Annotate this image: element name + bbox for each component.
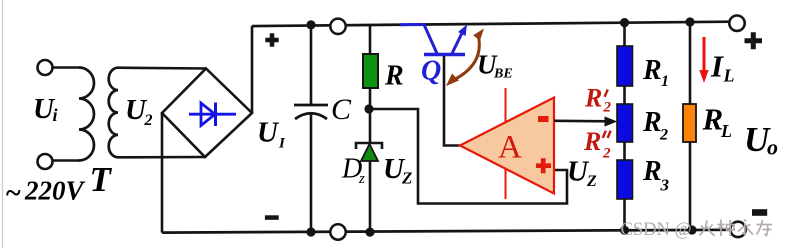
bridge rectifier diamond bbox=[162, 69, 252, 158]
node load top junction bbox=[685, 17, 694, 26]
node cap top junction bbox=[306, 20, 315, 29]
svg-text:z: z bbox=[358, 171, 365, 187]
resistor R bbox=[363, 54, 378, 88]
wire primary top bbox=[53, 66, 81, 69]
resistor R3 bbox=[617, 160, 633, 199]
wire R3 bottom bbox=[623, 199, 626, 230]
svg-text:I: I bbox=[710, 49, 724, 84]
wire bridge plus up bbox=[251, 26, 254, 113]
node cap bottom junction bbox=[306, 227, 315, 236]
svg-text:L: L bbox=[723, 66, 735, 86]
watermark glyph yong bbox=[738, 220, 753, 235]
op-amp minus sign bbox=[538, 116, 549, 122]
resistor R2 potentiometer bbox=[617, 104, 633, 142]
svg-text:3: 3 bbox=[660, 176, 670, 195]
op-amp A power stub top bbox=[505, 88, 507, 122]
wire secondary bottom to bridge bbox=[118, 156, 205, 159]
wire R1 to R2 bbox=[623, 86, 626, 105]
svg-text:R: R bbox=[584, 84, 602, 113]
resistor RL load bbox=[683, 104, 696, 142]
svg-text:2: 2 bbox=[603, 100, 612, 116]
svg-text:Z: Z bbox=[586, 173, 597, 190]
watermark glyph cun bbox=[757, 220, 773, 236]
wiper arrowhead bbox=[605, 116, 618, 126]
transistor Q base bar bbox=[424, 53, 465, 56]
op-amp A power stub bottom bbox=[505, 168, 507, 199]
svg-text:2: 2 bbox=[144, 112, 153, 129]
svg-text:R: R bbox=[702, 102, 724, 137]
label minus right bbox=[752, 209, 767, 216]
transistor Q emitter arrowhead bbox=[458, 25, 467, 37]
op-amp A triangle bbox=[460, 98, 554, 194]
svg-text:R: R bbox=[642, 107, 662, 138]
node zener bottom junction bbox=[365, 228, 374, 237]
wire bridge minus down bbox=[161, 113, 164, 233]
svg-text:I: I bbox=[278, 136, 286, 152]
transformer T primary winding bbox=[79, 68, 94, 161]
wire secondary top to bridge bbox=[118, 66, 206, 69]
zener diode Dz cathode bar bbox=[356, 143, 382, 149]
label plus left bbox=[265, 33, 278, 46]
capacitor C curved plate bbox=[295, 113, 327, 119]
svg-text:R: R bbox=[642, 156, 662, 187]
svg-text:BE: BE bbox=[493, 67, 513, 82]
svg-text:A: A bbox=[498, 130, 522, 166]
wire inverting input to R2 wiper bbox=[554, 120, 608, 123]
capacitor C top plate bbox=[294, 104, 328, 107]
svg-text:~: ~ bbox=[6, 178, 21, 209]
bridge diode lead wire bbox=[189, 113, 236, 116]
bridge diode triangle bbox=[201, 103, 215, 126]
terminal UI bottom bbox=[330, 224, 345, 239]
svg-text:Z: Z bbox=[401, 169, 412, 188]
wire bottom rail bbox=[162, 230, 731, 233]
watermark glyph huo bbox=[700, 221, 715, 236]
divider wire top bbox=[623, 23, 626, 48]
node divider top junction bbox=[620, 18, 629, 27]
svg-text:2: 2 bbox=[602, 146, 611, 162]
zener diode Dz wire bottom bbox=[369, 161, 372, 232]
wire reference Uz to op-amp plus input bbox=[369, 109, 567, 204]
terminal output plus bbox=[729, 16, 744, 31]
svg-text:R: R bbox=[384, 61, 404, 92]
terminal output minus bbox=[730, 222, 745, 237]
svg-text:i: i bbox=[53, 105, 58, 125]
svg-text:CSDN @: CSDN @ bbox=[621, 220, 692, 240]
svg-text:T: T bbox=[90, 160, 113, 199]
svg-text:220V: 220V bbox=[24, 176, 86, 206]
svg-text:L: L bbox=[720, 121, 732, 141]
transistor Q emitter lead bbox=[452, 30, 464, 54]
node load bottom junction bbox=[687, 225, 696, 234]
zener diode Dz triangle bbox=[361, 144, 378, 161]
wire top rail bbox=[252, 22, 730, 26]
capacitor C wire bottom bbox=[310, 113, 313, 232]
arrow UBE curved bbox=[453, 37, 480, 81]
node divider bottom junction bbox=[620, 226, 629, 235]
transistor Q collector rail segment bbox=[400, 23, 425, 26]
watermark glyph zhong bbox=[718, 220, 735, 237]
load wire top bbox=[689, 22, 692, 106]
transistor Q collector lead bbox=[424, 25, 437, 54]
current IL arrow bbox=[703, 37, 706, 71]
transformer T secondary winding bbox=[109, 68, 118, 158]
wire R to zener bbox=[369, 88, 372, 143]
svg-text:o: o bbox=[767, 135, 778, 160]
wire base to op-amp output bbox=[444, 56, 460, 146]
svg-text:C: C bbox=[331, 93, 352, 126]
terminal input bottom bbox=[38, 154, 53, 169]
terminal input top bbox=[38, 60, 53, 75]
load wire bottom bbox=[689, 142, 692, 230]
node zener top junction bbox=[364, 104, 373, 113]
svg-text:1: 1 bbox=[661, 73, 669, 90]
svg-text:Q: Q bbox=[421, 56, 441, 87]
svg-text:2: 2 bbox=[659, 127, 668, 144]
label plus right bbox=[745, 32, 763, 49]
svg-text:U: U bbox=[257, 117, 280, 149]
wire primary bottom bbox=[53, 159, 81, 162]
label minus left bbox=[265, 215, 279, 220]
resistor R1 bbox=[617, 46, 633, 86]
terminal UI top bbox=[330, 19, 345, 34]
svg-text:R: R bbox=[642, 55, 662, 86]
capacitor C wire top bbox=[310, 25, 313, 105]
bridge diode cathode bar bbox=[214, 103, 217, 127]
resistor R wire top bbox=[369, 25, 372, 56]
wire R2 to R3 bbox=[623, 142, 626, 161]
svg-text:R: R bbox=[583, 127, 601, 156]
op-amp plus sign bbox=[536, 158, 551, 173]
